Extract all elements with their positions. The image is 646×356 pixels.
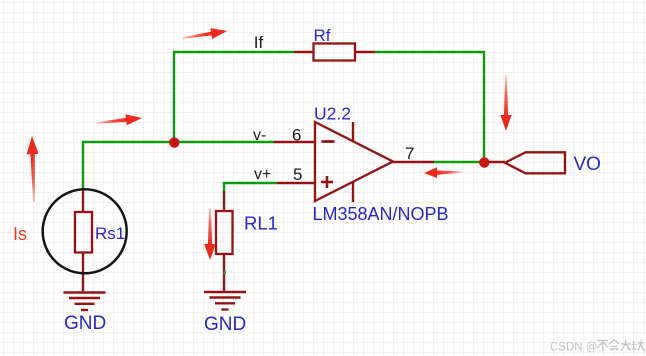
- pin 5 stub: [277, 182, 316, 184]
- svg-text:5: 5: [293, 165, 302, 184]
- svg-text:CSDN @: CSDN @: [550, 342, 597, 354]
- svg-text:Rf: Rf: [314, 26, 331, 45]
- wire: RL1 top to v+ pin: [224, 183, 277, 191]
- annotation arrow: Is source current (left, pointing up): [26, 136, 40, 202]
- wire stub: node to VO port: [484, 161, 505, 163]
- power pin stub top of op-amp: [352, 122, 354, 142]
- svg-text:GND: GND: [204, 314, 246, 335]
- svg-text:7: 7: [405, 144, 414, 163]
- power pin stub bottom of op-amp: [352, 182, 354, 202]
- pin end marker on RL1 lower lead: [224, 271, 227, 274]
- current source circle around Rs1: [43, 189, 127, 273]
- svg-text:RL1: RL1: [244, 213, 278, 234]
- port VO flag: [505, 152, 565, 173]
- ground symbol GND left: [64, 293, 106, 311]
- annotation arrow: RL1 current (pointing down): [204, 208, 216, 260]
- annotation arrow: current into node (mid, pointing right): [96, 113, 142, 129]
- wire: feedback top-left segment with corner down to inverting node: [174, 52, 294, 142]
- wire: op-amp output to node: [433, 161, 484, 163]
- watermark: [550, 340, 644, 354]
- annotation arrow: output current (pointing left): [424, 167, 461, 179]
- op-amp U2.2 triangle body: [315, 122, 393, 201]
- annotation arrow: If direction (top, pointing right): [182, 26, 228, 44]
- wire: feedback top-right segment with corner down to output node: [375, 52, 484, 162]
- ground symbol GND right: [204, 292, 246, 310]
- svg-text:v-: v-: [253, 127, 266, 144]
- svg-text:LM358AN/NOPB: LM358AN/NOPB: [313, 204, 449, 224]
- annotation arrow: output branch current (pointing down): [500, 75, 511, 131]
- junction node at output: [479, 157, 489, 167]
- resistor Rf: [294, 44, 375, 61]
- svg-text:If: If: [254, 33, 264, 52]
- svg-text:VO: VO: [574, 154, 601, 175]
- resistor Rs1: [75, 191, 92, 292]
- pin 6 stub: [274, 141, 316, 143]
- svg-text:Rs1: Rs1: [95, 224, 125, 243]
- svg-text:v+: v+: [254, 166, 271, 183]
- pin 7 stub: [392, 161, 434, 163]
- svg-text:6: 6: [292, 126, 301, 145]
- svg-text:U2.2: U2.2: [314, 104, 351, 124]
- wire: left branch vertical and horizontal to v- pin: [83, 142, 274, 191]
- svg-text:Is: Is: [13, 224, 27, 244]
- resistor RL1: [216, 191, 233, 292]
- junction node at inverting input: [169, 137, 179, 147]
- svg-text:GND: GND: [64, 313, 106, 334]
